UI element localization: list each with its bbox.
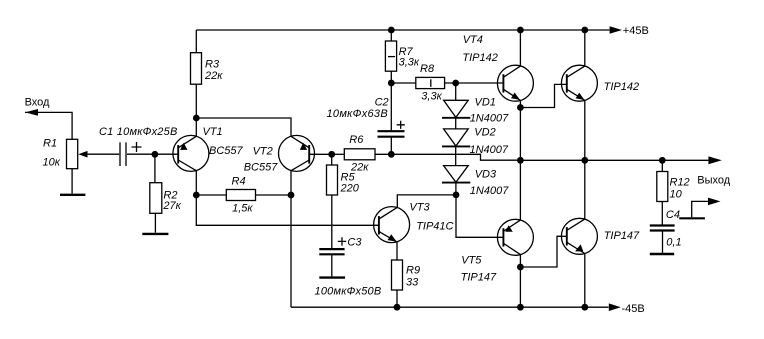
svg-text:TIP147: TIP147 [461, 272, 497, 284]
svg-text:C4: C4 [666, 209, 680, 221]
transistor VT1 BC557 [173, 135, 209, 171]
svg-text:10к: 10к [43, 156, 61, 168]
diode VD1 1N4007 [444, 100, 469, 117]
wire C4 bottom lead [662, 231, 664, 253]
node junction VT1c/R4 [193, 192, 200, 199]
svg-text:22к: 22к [204, 70, 223, 82]
transistor VT2 BC557 [279, 135, 315, 171]
svg-text:TIP142: TIP142 [462, 52, 497, 64]
wire R8 right lead to VT4 base [444, 82, 503, 84]
transistor TIP142 #2 [561, 65, 597, 101]
svg-text:C2: C2 [375, 96, 389, 108]
resistor R4 [226, 190, 255, 201]
wire R12 to C4 [661, 202, 663, 226]
transistor VT3 TIP41C [374, 207, 410, 243]
wire R7 bottom lead [390, 71, 392, 83]
wire VT3 emitter lead [396, 242, 398, 260]
wire R9 bottom lead [396, 290, 398, 307]
wire VD1-VD2 link [455, 118, 457, 129]
wire TIP142 #2 emitter to output rail [584, 100, 586, 160]
wire R4 left lead [196, 194, 226, 196]
svg-text:33: 33 [406, 277, 419, 289]
svg-text:100мкФх50В: 100мкФх50В [315, 286, 382, 298]
svg-text:0,1: 0,1 [666, 237, 681, 249]
wire C1 to VT1 base [127, 153, 178, 155]
wire +45V top rail [196, 29, 609, 31]
svg-text:R8: R8 [420, 63, 435, 75]
wire VT1 emitter lead [195, 118, 197, 136]
svg-text:Вход: Вход [25, 96, 50, 108]
svg-text:VD3: VD3 [475, 168, 497, 180]
wire VD3 node to VT3 collector [397, 195, 456, 208]
transistor VT5 TIP147 [497, 219, 533, 255]
wire R3 top lead [195, 30, 197, 53]
resistor R9 [392, 260, 403, 290]
svg-text:22к: 22к [350, 161, 369, 173]
wire VT2 collector lead [290, 171, 292, 195]
wire VD2-VD3 link [455, 146, 457, 165]
ground under R2 [142, 233, 168, 235]
node output terminal 2 bar [679, 217, 705, 219]
svg-text:VT4: VT4 [463, 34, 483, 46]
node junction VT2b/R5/R6 [328, 151, 335, 158]
svg-text:3,3к: 3,3к [421, 91, 442, 103]
svg-text:Выход: Выход [697, 175, 730, 187]
wire VT4 collector lead [519, 30, 521, 66]
svg-text:R6: R6 [349, 134, 364, 146]
transistor VT4 TIP142 [497, 65, 533, 101]
svg-text:R12: R12 [670, 177, 690, 189]
wire VT4 emitter to output rail [519, 100, 521, 160]
wire R6 left lead [332, 153, 345, 155]
diode VD2 1N4007 [444, 129, 469, 146]
wire C3 bottom lead [331, 255, 333, 276]
ground under C3 [319, 276, 345, 278]
resistor R8 power rating mark (1W dash) [430, 79, 432, 87]
capacitor C2 polarity plus [397, 121, 405, 129]
svg-text:+45В: +45В [623, 25, 649, 37]
diode VD3 1N4007 [444, 166, 469, 183]
svg-text:R9: R9 [406, 264, 420, 276]
svg-text:VD1: VD1 [475, 97, 496, 109]
svg-text:1N4007: 1N4007 [470, 185, 509, 197]
wire TIP147 #2 emitter lead [584, 160, 586, 219]
resistor R5 [327, 165, 338, 195]
svg-text:R4: R4 [232, 176, 246, 188]
wire C2 bottom lead [390, 137, 392, 155]
wire VD3 cathode lead [455, 183, 457, 195]
svg-text:VT2: VT2 [253, 146, 273, 158]
wire R7 node to R8 [391, 82, 416, 84]
wire VT5 collector to TIP147 #2 base [520, 236, 566, 267]
node junction R8/VD1/VT4b [452, 80, 459, 87]
resistor R8 [416, 77, 445, 88]
svg-text:10: 10 [670, 189, 683, 201]
wire R1 bottom lead [71, 169, 73, 194]
resistor R1 wiper arrow [78, 151, 87, 158]
wire VT4 emitter to TIP142 #2 base [520, 84, 566, 107]
svg-text:BC557: BC557 [244, 162, 279, 174]
wire VD3 node to VT5 base [456, 195, 503, 237]
node junction VT5c bottom rail [517, 304, 524, 311]
ground under C4 [650, 253, 674, 255]
node junction TIP142 #2 collector top rail [581, 27, 588, 34]
resistor R6 [344, 149, 375, 160]
resistor R12 [657, 172, 668, 202]
capacitor C4 [650, 226, 675, 231]
svg-text:VT1: VT1 [203, 126, 223, 138]
node +45V arrow [610, 26, 622, 34]
svg-text:10мкФх63В: 10мкФх63В [327, 108, 389, 120]
node junction R9 bottom rail [394, 304, 401, 311]
capacitor C1 polarity plus [132, 142, 142, 152]
wire R2 top lead [154, 154, 156, 182]
wire VT1 collector lead [195, 171, 197, 195]
wire R3 bottom lead [195, 84, 197, 118]
node junction VT5 collector / TIP147 #2 base [517, 264, 524, 271]
svg-text:R3: R3 [205, 59, 220, 71]
node junction R7/R8/C2 [388, 80, 395, 87]
wire VT1 collector to VT3 base [196, 195, 379, 225]
wire VT5 emitter lead [519, 160, 521, 220]
node junction R3/VT1e/VT2e [193, 115, 200, 122]
svg-text:220: 220 [340, 183, 360, 195]
svg-text:3,3к: 3,3к [399, 56, 420, 68]
node junction VD3/VT3c/VT5b [453, 192, 460, 199]
node Вход arrow [25, 109, 38, 116]
svg-text:BC557: BC557 [209, 145, 244, 157]
svg-text:1N4007: 1N4007 [470, 113, 509, 125]
wire VT5 collector to bottom rail [519, 255, 521, 308]
capacitor C3 polarity plus [338, 237, 346, 245]
wire VT2 base lead [309, 153, 332, 155]
capacitor C2 [378, 131, 405, 137]
node junction output / TIP142 #2 emitter [581, 157, 588, 164]
svg-text:-45В: -45В [622, 303, 645, 315]
svg-text:TIP142: TIP142 [604, 81, 639, 93]
resistor R3 [191, 53, 202, 84]
wire R12 top lead [661, 160, 663, 171]
svg-text:27к: 27к [162, 200, 181, 212]
node junction C1/R2/VT1 [152, 151, 159, 158]
resistor R2 [150, 183, 162, 214]
wire output rail [520, 159, 708, 161]
node junction C2 bottom [388, 151, 395, 158]
node junction VT4 emitter / TIP142 #2 base [517, 104, 524, 111]
svg-text:VD2: VD2 [474, 126, 495, 138]
wire R4 right lead [256, 194, 292, 196]
svg-text:C3: C3 [347, 236, 362, 248]
node junction TIP147 #2 collector bottom rail [581, 304, 588, 311]
wire output terminal 2 [692, 201, 709, 217]
node output arrow [708, 156, 721, 164]
wire bottom -45V rail [291, 306, 609, 308]
transistor TIP147 #2 [561, 218, 597, 254]
svg-text:TIP147: TIP147 [604, 230, 640, 242]
wire R3 node to VT2 emitter [196, 118, 291, 136]
svg-text:1N4007: 1N4007 [470, 144, 509, 156]
wire input Вход line [25, 112, 72, 139]
resistor R1 (potentiometer) [67, 139, 78, 168]
node junction output/R12 [659, 157, 666, 164]
node junction R4/VT2c [288, 192, 295, 199]
node junction output/VT4e [517, 157, 524, 164]
wire C2 top lead [390, 83, 392, 131]
svg-text:R1: R1 [43, 137, 57, 149]
wire R6 to output node (bootstrap) [375, 154, 520, 160]
ground under R1 [60, 194, 85, 196]
wire R7 top lead [390, 30, 392, 41]
wire TIP147 #2 collector lead [584, 254, 586, 308]
node output terminal 2 arrow [708, 198, 721, 206]
resistor R7 power rating mark (1W dash) [388, 56, 395, 58]
node junction R7 top rail [388, 27, 395, 34]
svg-text:VT5: VT5 [461, 254, 482, 266]
node -45V arrow [609, 303, 621, 311]
wire R5 bottom to C3 [331, 195, 333, 248]
capacitor C1 [120, 142, 126, 166]
wire TIP142 #2 collector lead [584, 30, 586, 66]
svg-text:C1 10мкФх25В: C1 10мкФх25В [99, 126, 178, 138]
wire VD1 anode lead [455, 83, 457, 100]
node junction VT4c top rail [517, 27, 524, 34]
resistor R7 [385, 41, 396, 71]
wire R2 bottom lead [154, 213, 156, 232]
svg-text:TIP41C: TIP41C [416, 221, 453, 233]
svg-text:1,5к: 1,5к [232, 202, 253, 214]
capacitor C3 [319, 249, 344, 254]
wire VT2 node to bottom rail [290, 195, 292, 307]
wire R1 wiper to C1 [87, 153, 119, 155]
svg-text:VT3: VT3 [409, 202, 430, 214]
wire R5 top lead [331, 154, 333, 165]
